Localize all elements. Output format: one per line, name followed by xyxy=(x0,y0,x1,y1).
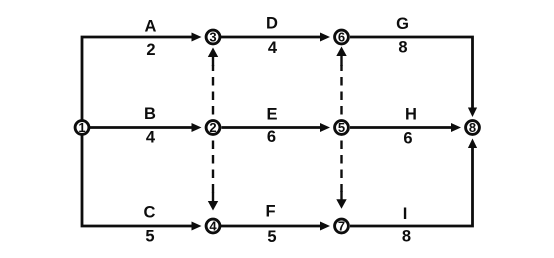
svg-text:4: 4 xyxy=(146,129,156,147)
svg-text:6: 6 xyxy=(338,30,345,45)
svg-text:7: 7 xyxy=(338,219,345,234)
svg-text:4: 4 xyxy=(209,219,217,234)
svg-text:6: 6 xyxy=(267,128,276,146)
svg-text:8: 8 xyxy=(402,228,411,246)
svg-text:5: 5 xyxy=(267,228,276,246)
svg-text:5: 5 xyxy=(338,120,345,135)
svg-text:H: H xyxy=(405,105,417,123)
svg-text:1: 1 xyxy=(78,120,85,135)
svg-text:5: 5 xyxy=(145,228,154,246)
svg-text:3: 3 xyxy=(209,30,216,45)
svg-text:F: F xyxy=(265,203,275,221)
svg-text:6: 6 xyxy=(403,129,412,147)
svg-text:8: 8 xyxy=(398,39,407,57)
svg-text:4: 4 xyxy=(268,39,278,57)
svg-text:I: I xyxy=(403,205,408,223)
svg-text:B: B xyxy=(144,105,156,123)
svg-text:C: C xyxy=(144,204,156,222)
svg-text:2: 2 xyxy=(146,41,155,59)
svg-text:8: 8 xyxy=(469,120,476,135)
svg-text:E: E xyxy=(266,105,277,123)
svg-text:D: D xyxy=(266,15,278,33)
svg-text:2: 2 xyxy=(209,120,216,135)
svg-text:G: G xyxy=(396,15,409,33)
svg-text:A: A xyxy=(145,17,157,35)
